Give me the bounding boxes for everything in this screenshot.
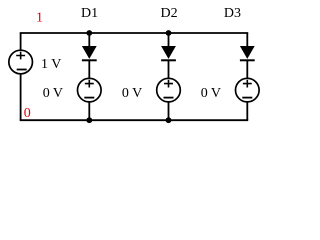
wire V1 top riser [20,33,22,50]
voltage source VB1 [78,78,102,102]
svg-text:0: 0 [24,106,31,121]
wire VB1 to bottom rail [88,102,90,120]
diode D3 [240,46,255,60]
diode D2 [161,46,176,60]
svg-text:D3: D3 [224,6,241,21]
wire V1 bottom riser [20,74,22,120]
svg-text:D1: D1 [81,6,98,21]
svg-text:1 V: 1 V [41,57,61,72]
V1 minus sign [17,69,27,71]
wire VB3 to bottom rail [246,102,248,120]
wire D1 cathode to VB1 [88,60,90,78]
diode D1 [82,46,97,60]
svg-text:0 V: 0 V [201,86,221,101]
VB2 minus sign [164,97,174,99]
wire D2 cathode to VB2 [168,60,170,78]
svg-text:1: 1 [36,10,43,25]
svg-text:0 V: 0 V [43,86,63,101]
V1 plus sign [16,52,25,60]
wire D3 cathode to VB3 [246,60,248,78]
wire bottom rail (node 0) [20,119,249,121]
VB3 minus sign [242,97,252,99]
VB1 plus sign [85,80,94,88]
wire D1 anode [88,33,90,46]
wire D2 anode [168,33,170,46]
junction dot top D1 [86,30,92,36]
VB3 plus sign [243,80,252,88]
voltage source VB3 [236,78,260,102]
VB2 plus sign [164,80,173,88]
svg-text:D2: D2 [161,6,178,21]
junction dot bottom D1 [86,117,92,123]
VB1 minus sign [84,97,94,99]
voltage source VB2 [157,78,181,102]
wire VB2 to bottom rail [168,102,170,120]
junction dot bottom D2 [166,117,172,123]
wire D3 anode (top right drop) [246,33,248,46]
junction dot top D2 [166,30,172,36]
svg-text:0 V: 0 V [122,86,142,101]
wire top rail (node 1) [20,32,249,34]
voltage source V1 [9,50,33,74]
